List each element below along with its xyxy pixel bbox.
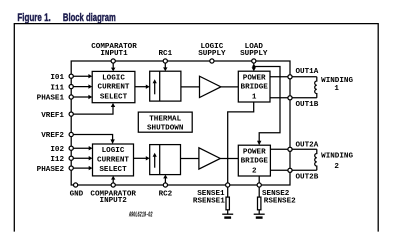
svg-text:SUPPLY: SUPPLY — [198, 50, 226, 58]
block: POWER BRIDGE 2 — [238, 145, 270, 176]
label LOAD SUPPLY — [240, 43, 268, 58]
pin OUT2A — [288, 147, 292, 151]
op-amp comparator triangle 2 — [199, 148, 220, 169]
svg-text:I02: I02 — [50, 146, 64, 154]
svg-text:WINDING: WINDING — [321, 153, 353, 161]
block: POWER BRIDGE 1 — [238, 71, 270, 102]
wire I11 arrow into logic1 — [73, 84, 92, 88]
wire triangle1 to bridge1 — [221, 86, 238, 88]
pin VREF2 — [69, 132, 73, 136]
svg-text:THERMAL: THERMAL — [149, 115, 181, 123]
svg-text:RSENSE1: RSENSE1 — [193, 198, 225, 206]
pin PHASE1 — [69, 95, 73, 99]
wire OUT1B — [270, 97, 288, 99]
svg-text:A90L6219-02: A90L6219-02 — [129, 212, 153, 220]
resistor RSENSE2 — [258, 197, 261, 210]
block: one-shot source 1 (with divider and up arrow) — [150, 71, 181, 101]
svg-text:CURRENT: CURRENT — [98, 84, 130, 92]
svg-text:BRIDGE: BRIDGE — [241, 158, 269, 166]
pin VREF1 — [69, 112, 73, 116]
svg-text:RSENSE2: RSENSE2 — [264, 198, 296, 206]
wire bridge1 bottom to SENSE1 pin — [228, 102, 254, 183]
op-amp comparator triangle 1 — [200, 76, 221, 97]
wire OUT1A external — [292, 76, 317, 78]
pin OUT1A — [288, 75, 292, 79]
svg-text:GND: GND — [70, 190, 84, 198]
wire VREF1 to logic1 bottom — [73, 103, 115, 114]
wire PHASE2 arrow into logic2 — [73, 166, 92, 170]
svg-text:SELECT: SELECT — [99, 166, 127, 174]
wire PHASE1 arrow into logic1 — [73, 95, 92, 99]
wire bridge2 bottom to SENSE2 pin — [258, 176, 260, 183]
resistor RSENSE1 — [226, 197, 229, 210]
svg-text:INPUT1: INPUT1 — [100, 50, 128, 58]
block: LOGIC CURRENT SELECT 2 — [93, 144, 134, 176]
svg-text:PHASE1: PHASE1 — [37, 95, 65, 103]
svg-text:I12: I12 — [50, 156, 64, 164]
svg-text:POWER: POWER — [243, 74, 266, 82]
ground symbol 2 — [254, 214, 265, 219]
svg-text:1: 1 — [334, 85, 339, 93]
chip boundary rectangle — [71, 61, 290, 185]
wire LOAD SUPPLY to bridge1 top — [252, 63, 256, 71]
junction dot on load supply branch — [252, 65, 255, 68]
svg-text:OUT1A: OUT1A — [296, 68, 319, 76]
wire I01 arrow into logic1 — [73, 74, 92, 78]
svg-text:INPUT2: INPUT2 — [100, 197, 128, 205]
pin SENSE2 — [257, 183, 261, 187]
figure top rule — [14, 23, 379, 25]
wire OUT2B external — [292, 169, 317, 171]
pin LOGIC SUPPLY — [210, 59, 214, 63]
pin SENSE1 — [226, 183, 230, 187]
wire OUT2A external — [292, 148, 317, 150]
pin OUT2B — [288, 168, 292, 172]
figure right border — [377, 24, 379, 232]
svg-text:SHUTDOWN: SHUTDOWN — [147, 125, 184, 133]
svg-text:POWER: POWER — [243, 148, 266, 156]
label LOGIC SUPPLY — [198, 43, 226, 58]
svg-text:I11: I11 — [50, 84, 64, 92]
svg-text:OUT2B: OUT2B — [296, 174, 319, 182]
pin COMPARATOR INPUT2 — [111, 183, 115, 187]
ground symbol 1 — [222, 214, 233, 219]
svg-text:2: 2 — [334, 163, 339, 171]
winding 1 coil — [315, 77, 317, 98]
wire RSENSE2 to ground — [258, 210, 260, 214]
wire OUT2B — [270, 169, 288, 171]
svg-text:SELECT: SELECT — [100, 93, 128, 101]
wire OUT1B external — [292, 97, 317, 99]
svg-text:Block diagram: Block diagram — [63, 12, 116, 24]
pin COMPARATOR INPUT1 — [111, 59, 115, 63]
wire triangle2 to bridge2 — [220, 157, 238, 159]
wire load supply branch to bridge2 top — [254, 67, 280, 146]
svg-text:LOGIC: LOGIC — [102, 147, 125, 155]
pin I12 — [69, 156, 73, 160]
pin I02 — [69, 146, 73, 150]
pin PHASE2 — [69, 166, 73, 170]
svg-text:PHASE2: PHASE2 — [37, 166, 65, 174]
block: THERMAL SHUTDOWN — [138, 112, 192, 132]
wire COMPARATOR INPUT1 to logic1 top — [111, 63, 115, 71]
wire SENSE1 pin to resistor — [227, 187, 229, 197]
wire OUT2A — [270, 148, 288, 150]
svg-text:OUT1B: OUT1B — [296, 101, 319, 109]
svg-text:RC1: RC1 — [158, 50, 172, 58]
wire I12 arrow into logic2 — [73, 156, 92, 160]
block: LOGIC CURRENT SELECT 1 — [92, 71, 135, 102]
svg-text:LOGIC: LOGIC — [102, 74, 125, 82]
wire SENSE2 pin to resistor — [258, 187, 260, 197]
wire one-shot2 to triangle2 — [181, 157, 199, 159]
pin LOAD SUPPLY — [252, 59, 256, 63]
figure title "Figure 1. Block diagram" — [17, 12, 116, 24]
svg-text:2: 2 — [252, 167, 257, 175]
svg-text:RC2: RC2 — [159, 190, 173, 198]
svg-text:VREF2: VREF2 — [41, 132, 64, 140]
wire I02 arrow into logic2 — [73, 146, 92, 150]
wire logic2 to one-shot2 — [134, 156, 150, 160]
svg-text:BRIDGE: BRIDGE — [241, 84, 269, 92]
block: one-shot source 2 (with divider and up arrow) — [150, 145, 181, 175]
pin I01 — [69, 74, 73, 78]
svg-text:VREF1: VREF1 — [41, 112, 64, 120]
figure left border — [13, 24, 15, 232]
svg-text:1: 1 — [252, 93, 257, 101]
wire logic1 to one-shot1 — [135, 85, 150, 89]
svg-text:CURRENT: CURRENT — [97, 156, 129, 164]
label COMPARATOR INPUT1 — [91, 43, 137, 58]
wire COMPARATOR INPUT2 to logic2 bottom — [111, 176, 115, 183]
svg-text:OUT2A: OUT2A — [296, 142, 319, 150]
winding 2 coil — [315, 149, 317, 170]
wire RSENSE1 to ground — [227, 210, 229, 214]
label COMPARATOR INPUT2 — [90, 190, 136, 205]
pin I11 — [69, 85, 73, 89]
pin OUT1B — [288, 96, 292, 100]
pin RC2 — [163, 183, 167, 187]
wire OUT1A — [270, 76, 288, 78]
svg-text:Figure 1.: Figure 1. — [17, 12, 50, 24]
wire RC2 into one-shot2 bottom — [163, 175, 167, 183]
wire one-shot1 to triangle1 — [181, 86, 200, 88]
svg-text:SUPPLY: SUPPLY — [240, 50, 268, 58]
svg-text:I01: I01 — [50, 74, 64, 82]
pin GND — [74, 183, 78, 187]
pin RC1 — [163, 59, 167, 63]
wire VREF2 to logic2 top — [73, 135, 114, 145]
wire RC1 into one-shot1 top — [163, 63, 167, 71]
